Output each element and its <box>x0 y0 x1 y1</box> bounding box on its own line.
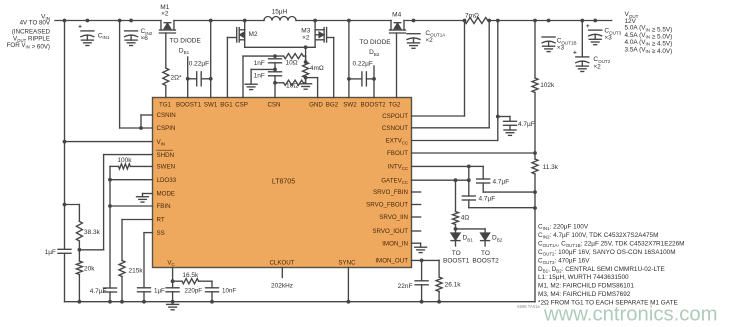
svg-text:SRVO_FBIN: SRVO_FBIN <box>373 189 408 196</box>
svg-text:M1, M2: FAIRCHILD FDMS86101: M1, M2: FAIRCHILD FDMS86101 <box>538 283 634 290</box>
svg-text:4.7µF: 4.7µF <box>518 121 535 128</box>
svg-text:RT: RT <box>157 217 165 224</box>
svg-text:7mΩ: 7mΩ <box>465 13 479 20</box>
svg-text:4.7µF: 4.7µF <box>90 288 107 295</box>
svg-text:4V TO 80V: 4V TO 80V <box>20 20 51 27</box>
svg-text:TG1: TG1 <box>159 102 172 109</box>
svg-text:215k: 215k <box>129 267 144 274</box>
svg-text:BOOST2: BOOST2 <box>360 102 386 109</box>
svg-text:2Ω*: 2Ω* <box>171 75 182 82</box>
svg-text:GND: GND <box>309 102 323 109</box>
svg-text:102k: 102k <box>540 82 555 89</box>
svg-text:IMON_IN: IMON_IN <box>382 240 408 247</box>
svg-text:SWEN: SWEN <box>157 164 176 171</box>
svg-text:SRVO_IIN: SRVO_IIN <box>379 214 408 221</box>
svg-text:0.22µF: 0.22µF <box>353 60 373 67</box>
svg-text:CSNOUT: CSNOUT <box>382 125 408 132</box>
svg-text:0.22µF: 0.22µF <box>189 60 209 67</box>
svg-text:220pF: 220pF <box>185 288 203 295</box>
svg-text:10nF: 10nF <box>222 288 236 295</box>
svg-text:1nF: 1nF <box>254 60 265 67</box>
svg-text:BOOST2: BOOST2 <box>472 258 499 265</box>
svg-text:TO DIODE: TO DIODE <box>359 39 391 46</box>
svg-text:1µF: 1µF <box>154 288 165 295</box>
svg-text:BG2: BG2 <box>326 102 339 109</box>
svg-text:202kHz: 202kHz <box>271 282 293 289</box>
svg-text:BG1: BG1 <box>220 102 233 109</box>
svg-text:SHDN: SHDN <box>157 152 175 159</box>
svg-text:38.3k: 38.3k <box>84 229 101 236</box>
svg-text:CIN2: 4.7µF 100V, TDK C4532X7S: CIN2: 4.7µF 100V, TDK C4532X7S2A475M <box>538 232 658 240</box>
svg-text:COUT1A, COUT1B: 22µF 25V, TDK: COUT1A, COUT1B: 22µF 25V, TDK C4532X7R1E… <box>538 240 684 248</box>
svg-text:15µH: 15µH <box>272 9 288 16</box>
svg-text:100k: 100k <box>117 157 132 164</box>
svg-text:×2: ×2 <box>161 10 169 17</box>
svg-text:M2: M2 <box>249 31 258 38</box>
svg-text:4.7µF: 4.7µF <box>479 196 496 203</box>
svg-text:SW2: SW2 <box>343 102 357 109</box>
svg-text:www.cntronics.com: www.cntronics.com <box>543 304 718 326</box>
svg-text:×2: ×2 <box>425 37 433 44</box>
svg-text:LDO33: LDO33 <box>157 177 177 184</box>
svg-text:6598 TA01a: 6598 TA01a <box>517 304 540 309</box>
svg-text:SW1: SW1 <box>204 102 218 109</box>
svg-text:COUT2: 100µF 16V, SANYO OS-CON: COUT2: 100µF 16V, SANYO OS-CON 16SA100M <box>538 249 676 257</box>
svg-text:BOOST1: BOOST1 <box>443 258 470 265</box>
svg-text:20k: 20k <box>84 265 95 272</box>
svg-text:×6: ×6 <box>141 35 149 42</box>
svg-text:M3, M4: FAIRCHILD FDMS7692: M3, M4: FAIRCHILD FDMS7692 <box>538 291 631 298</box>
svg-text:CSN: CSN <box>267 102 280 109</box>
svg-text:×3: ×3 <box>557 44 565 51</box>
svg-text:CSNIN: CSNIN <box>157 112 176 119</box>
svg-text:SYNC: SYNC <box>338 260 356 267</box>
svg-text:×2: ×2 <box>593 64 601 71</box>
svg-text:×3: ×3 <box>604 34 612 41</box>
svg-text:MODE: MODE <box>157 191 176 198</box>
svg-text:16.5k: 16.5k <box>182 272 199 279</box>
svg-text:4.7µF: 4.7µF <box>493 179 510 186</box>
svg-text:SRVO_IOUT: SRVO_IOUT <box>372 228 408 235</box>
svg-text:1µF: 1µF <box>45 249 56 256</box>
svg-text:10Ω: 10Ω <box>286 59 298 66</box>
svg-text:CSPIN: CSPIN <box>157 125 176 132</box>
svg-text:CSP: CSP <box>235 102 248 109</box>
svg-text:SRVO_FBOUT: SRVO_FBOUT <box>366 202 408 209</box>
svg-text:+: + <box>78 24 82 31</box>
svg-text:4Ω: 4Ω <box>461 215 470 222</box>
svg-text:22nF: 22nF <box>398 283 413 290</box>
svg-text:SS: SS <box>157 230 165 237</box>
svg-text:CLKOUT: CLKOUT <box>269 260 294 267</box>
svg-text:BOOST1: BOOST1 <box>176 102 202 109</box>
svg-text:TO: TO <box>452 250 461 257</box>
svg-text:FBIN: FBIN <box>157 203 171 210</box>
svg-text:×2: ×2 <box>302 34 310 41</box>
svg-text:IMON_OUT: IMON_OUT <box>375 258 408 265</box>
svg-text:M3: M3 <box>301 27 310 34</box>
svg-text:TO: TO <box>481 250 490 257</box>
svg-text:M4: M4 <box>392 12 401 19</box>
svg-text:1nF: 1nF <box>254 73 265 80</box>
svg-text:+: + <box>586 23 590 30</box>
svg-text:+: + <box>573 50 577 57</box>
svg-text:TG2: TG2 <box>388 102 401 109</box>
svg-text:FBOUT: FBOUT <box>387 150 408 157</box>
svg-text:L1: 15µH, WURTH 7443631500: L1: 15µH, WURTH 7443631500 <box>538 274 629 281</box>
svg-text:LT8705: LT8705 <box>272 179 295 186</box>
svg-text:4mΩ: 4mΩ <box>310 65 324 72</box>
svg-text:TO DIODE: TO DIODE <box>170 38 202 45</box>
svg-text:26.1k: 26.1k <box>445 281 462 288</box>
svg-text:CSPOUT: CSPOUT <box>382 113 408 120</box>
svg-text:11.3k: 11.3k <box>543 164 559 171</box>
